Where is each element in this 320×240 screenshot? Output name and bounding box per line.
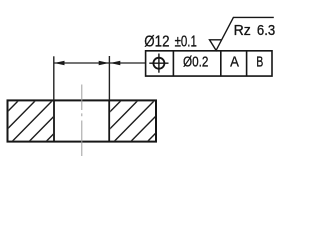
svg-text:B: B bbox=[256, 55, 263, 71]
hole centerline bbox=[81, 85, 83, 157]
surface roughness symbol bbox=[210, 17, 274, 50]
extension line left bbox=[53, 56, 55, 100]
svg-text:6.3: 6.3 bbox=[257, 23, 275, 39]
svg-text:±0.1: ±0.1 bbox=[175, 34, 197, 51]
hole left wall bbox=[53, 100, 55, 141]
right hatching bbox=[81, 100, 188, 141]
extension line right bbox=[108, 56, 110, 100]
svg-text:A: A bbox=[230, 55, 239, 71]
svg-text:Ø0.2: Ø0.2 bbox=[183, 54, 208, 70]
leader line to feature control frame bbox=[109, 61, 145, 65]
feature control frame bbox=[146, 51, 272, 76]
dimension text Ø12 ±0.1 bbox=[144, 34, 197, 51]
position tolerance symbol bbox=[149, 54, 168, 73]
dimension line with arrows bbox=[54, 61, 110, 65]
svg-text:Ø12: Ø12 bbox=[144, 34, 169, 51]
hole right wall bbox=[108, 100, 110, 141]
svg-text:Rz: Rz bbox=[234, 23, 251, 39]
roughness value Rz 6.3 bbox=[234, 23, 276, 39]
part section outline bbox=[8, 100, 157, 141]
left hatching bbox=[0, 100, 87, 141]
